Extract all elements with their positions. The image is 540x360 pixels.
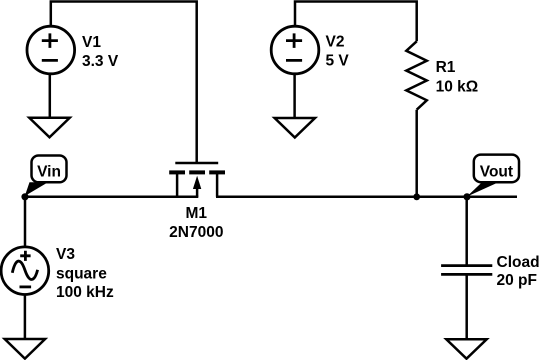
svg-text:V1: V1 <box>82 34 101 51</box>
label V3 square 100 kHz <box>56 246 114 301</box>
voltage source V1 <box>27 26 75 74</box>
svg-text:M1: M1 <box>186 205 208 222</box>
ground V1 <box>29 118 69 138</box>
wire Vin to V3 <box>24 197 27 247</box>
label Cload 20 pF <box>497 254 540 289</box>
junction dot Vout <box>463 193 470 200</box>
wire R1 to rail <box>415 110 418 197</box>
svg-text:20 pF: 20 pF <box>497 272 537 289</box>
ground V3 <box>5 339 45 359</box>
svg-text:R1: R1 <box>436 59 456 76</box>
wire V2 top rail to R1 <box>295 2 417 42</box>
svg-text:V3: V3 <box>56 246 75 263</box>
svg-text:5 V: 5 V <box>326 53 350 70</box>
wire Cload to ground <box>465 274 468 339</box>
label V2 5 V <box>326 33 350 69</box>
svg-text:square: square <box>56 266 107 283</box>
svg-text:100 kHz: 100 kHz <box>56 284 114 301</box>
svg-text:2N7000: 2N7000 <box>169 224 223 241</box>
voltage source V3 <box>1 247 49 295</box>
wire M1 drain rail right segment <box>216 196 517 199</box>
ground Cload <box>446 339 486 358</box>
resistor R1 <box>406 41 427 109</box>
junction dot R1 rail <box>413 193 420 200</box>
node Vout callout <box>467 155 519 197</box>
svg-text:Vout: Vout <box>480 163 513 180</box>
voltage source V2 <box>271 26 319 74</box>
wire V1 top rail to M1 gate <box>51 2 197 164</box>
label V1 3.3 V <box>82 34 119 70</box>
node Vin callout <box>25 156 67 197</box>
svg-text:10 kΩ: 10 kΩ <box>436 78 479 95</box>
label R1 10 kOhm <box>436 59 479 95</box>
wire V2 to ground <box>293 74 296 118</box>
svg-text:Cload: Cload <box>497 254 540 271</box>
transistor M1 <box>169 163 225 197</box>
capacitor Cload <box>441 266 492 275</box>
junction dot Vin <box>21 193 28 200</box>
wire Vout to Cload <box>465 197 468 266</box>
label M1 2N7000 <box>169 205 223 241</box>
ground V2 <box>275 118 315 138</box>
wire V3 to ground <box>24 295 27 340</box>
svg-text:V2: V2 <box>326 33 345 50</box>
wire V1 to ground <box>49 74 52 118</box>
svg-text:3.3 V: 3.3 V <box>82 53 119 70</box>
svg-text:Vin: Vin <box>37 163 61 180</box>
wire Vin rail left segment <box>25 196 198 199</box>
